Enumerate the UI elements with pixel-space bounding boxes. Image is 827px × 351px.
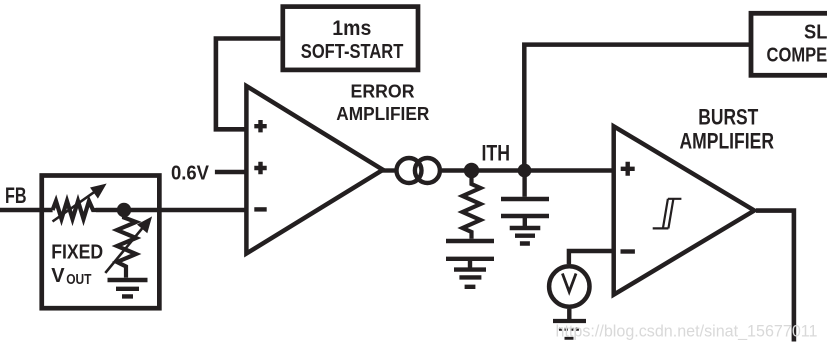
svg-text:AMPLIFIER: AMPLIFIER	[680, 128, 775, 153]
svg-text:0.6V: 0.6V	[171, 162, 210, 184]
svg-text:1ms: 1ms	[332, 17, 371, 40]
svg-text:V: V	[51, 265, 65, 287]
svg-text:ERROR: ERROR	[351, 81, 415, 102]
svg-text:SOFT-START: SOFT-START	[301, 41, 404, 63]
svg-text:OUT: OUT	[66, 272, 91, 288]
svg-text:FB: FB	[5, 183, 27, 208]
svg-text:https://blog.csdn.net/sinat_15: https://blog.csdn.net/sinat_15677011	[556, 323, 818, 341]
svg-text:ITH: ITH	[482, 140, 511, 165]
svg-text:FIXED: FIXED	[51, 242, 103, 264]
svg-text:AMPLIFIER: AMPLIFIER	[336, 103, 429, 124]
svg-text:COMPENSATION: COMPENSATION	[767, 44, 827, 66]
svg-text:SLOPE: SLOPE	[804, 22, 827, 44]
svg-text:BURST: BURST	[698, 105, 758, 130]
